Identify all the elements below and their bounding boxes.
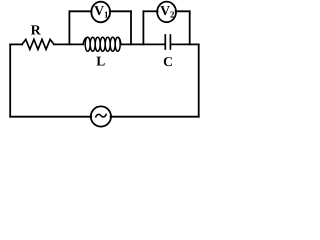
wire: outer loop left vertical: [9, 44, 11, 116]
wire: bottom right segment: [111, 116, 199, 118]
wire: main line from resistor to inductor: [54, 43, 83, 45]
svg-text:R: R: [31, 24, 42, 39]
voltmeter V2: [157, 2, 176, 23]
voltmeter V1: [91, 2, 110, 23]
wire: main line from inductor to capacitor: [121, 43, 165, 45]
wire: left corner to resistor: [10, 43, 22, 45]
voltmeter V2 branch: right vertical wire: [189, 11, 191, 44]
AC source: [91, 106, 111, 126]
svg-text:V1: V1: [94, 3, 109, 19]
svg-text:L: L: [96, 54, 105, 69]
voltmeter V1 branch: right vertical wire: [130, 11, 132, 44]
voltmeter V2 branch: top wire right: [176, 10, 190, 12]
voltmeter V1 branch: left vertical wire: [68, 11, 70, 44]
voltmeter V1 branch: top wire left: [69, 10, 91, 12]
capacitor C: [165, 35, 170, 49]
resistor R: [22, 39, 54, 49]
voltmeter V2 branch: left vertical wire: [142, 11, 144, 44]
inductor L: [83, 37, 121, 51]
wire: bottom left segment: [10, 116, 91, 118]
voltmeter V2 branch: top wire left: [143, 10, 157, 12]
svg-text:V2: V2: [160, 3, 175, 19]
svg-text:C: C: [163, 54, 173, 69]
wire: outer loop right vertical: [198, 44, 200, 116]
wire: main line from capacitor to right corner: [171, 43, 199, 45]
voltmeter V1 branch: top wire right: [110, 10, 131, 12]
